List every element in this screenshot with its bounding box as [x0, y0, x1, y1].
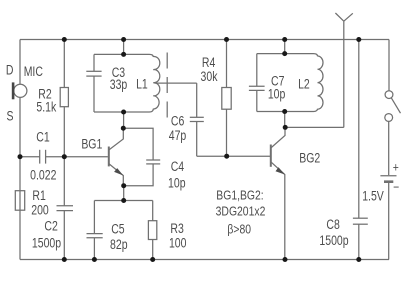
node C2 ground [62, 257, 67, 262]
battery 1.5V [380, 176, 396, 182]
wire L1 tap to C6 [155, 82, 197, 84]
svg-text:BG2: BG2 [299, 150, 320, 166]
svg-text:10p: 10p [168, 175, 186, 191]
svg-text:82p: 82p [110, 237, 128, 253]
svg-text:D: D [6, 62, 14, 78]
svg-text:C4: C4 [171, 159, 185, 175]
svg-text:+: + [393, 160, 399, 174]
capacitor C4 [123, 128, 160, 186]
wire bottom ground rail [20, 259, 389, 261]
wire collector node to antenna [285, 126, 344, 128]
svg-text:0.022: 0.022 [30, 167, 56, 183]
svg-text:1.5V: 1.5V [362, 188, 384, 204]
svg-text:MIC: MIC [24, 64, 43, 80]
wire C5/R3 box top [94, 200, 152, 202]
node R4 / C6 / BG2 base [224, 154, 229, 159]
svg-text:R3: R3 [170, 221, 184, 237]
capacitor C7 [249, 54, 265, 112]
wire BG1 emitter to box [123, 186, 125, 201]
svg-text:30k: 30k [201, 69, 219, 85]
switch S [385, 91, 401, 122]
wire L1 tank bottom drop [123, 112, 125, 128]
wire L2 tank top feed [284, 40, 286, 54]
svg-text:10p: 10p [268, 86, 286, 102]
resistor R1 [15, 191, 24, 211]
svg-text:C1: C1 [36, 129, 50, 145]
node L2 feed top [282, 37, 287, 42]
node BG1 collector / C4 [121, 126, 126, 131]
wire left rail upper [19, 40, 21, 85]
node L2 tank top [282, 51, 287, 56]
node C5 ground [92, 257, 97, 262]
svg-text:β>80: β>80 [227, 222, 251, 236]
capacitor C8 [353, 40, 368, 260]
capacitor C5 [87, 201, 103, 260]
svg-text:L1: L1 [136, 76, 148, 92]
svg-text:1500p: 1500p [32, 235, 61, 251]
microphone MIC [13, 82, 27, 99]
inductor L2 [257, 54, 323, 112]
node R3 ground [150, 257, 155, 262]
inductor L1 [94, 54, 160, 112]
svg-text:47p: 47p [169, 127, 187, 143]
node R2 top [62, 37, 67, 42]
resistor R2 [60, 40, 68, 157]
node L1 tank bottom [121, 110, 126, 115]
node C8 top [356, 37, 361, 42]
capacitor C6 [190, 83, 204, 156]
node dots [18, 37, 362, 262]
svg-text:5.1k: 5.1k [36, 99, 57, 115]
capacitor C3 [86, 54, 101, 112]
node C8 ground [356, 257, 361, 262]
wire top supply rail [20, 39, 389, 41]
svg-text:C5: C5 [111, 221, 125, 237]
svg-text:BG1: BG1 [81, 136, 102, 152]
wire L2 bottom drop to collector node [284, 112, 286, 128]
node BG2 emitter ground [283, 257, 288, 262]
transistor BG2 [271, 127, 285, 259]
antenna [335, 13, 352, 127]
node L2 tank bottom [282, 109, 287, 114]
svg-text:C8: C8 [326, 216, 340, 232]
node L1 tank top [121, 52, 126, 57]
wire left rail lower [19, 97, 21, 259]
capacitor C1 [20, 150, 108, 164]
wire right rail top [388, 40, 390, 91]
svg-text:BG1,BG2:: BG1,BG2: [216, 188, 263, 202]
svg-text:C2: C2 [44, 218, 58, 234]
svg-text:100: 100 [169, 235, 187, 251]
svg-text:200: 200 [31, 202, 49, 218]
node BG1 emitter / C4 [121, 183, 126, 188]
svg-text:L2: L2 [298, 76, 310, 92]
note BG1,BG2: 3DG201x2 beta>80 [216, 188, 266, 236]
resistor R4 [222, 40, 231, 157]
node BG2 collector / antenna [283, 125, 288, 130]
wire right rail middle [388, 121, 390, 175]
svg-text:−: − [393, 180, 399, 194]
node C5/R3 box top [121, 198, 126, 203]
svg-text:S: S [6, 108, 13, 124]
node left rail / C1 [18, 154, 23, 159]
transistor BG1 [109, 128, 124, 186]
resistor R3 [148, 201, 156, 260]
svg-text:33p: 33p [110, 77, 128, 93]
wire right rail bottom [388, 183, 390, 260]
svg-text:3DG201x2: 3DG201x2 [216, 205, 266, 219]
wire L1 tank top [123, 40, 125, 55]
dashed core line [166, 53, 168, 118]
node R2 bottom / C1 / C2 [62, 154, 67, 159]
wire BG2 base line [197, 155, 270, 157]
node R4 top [224, 37, 229, 42]
capacitor C2 [57, 157, 74, 260]
svg-text:1500p: 1500p [319, 232, 348, 248]
node L1 feed top [121, 37, 126, 42]
